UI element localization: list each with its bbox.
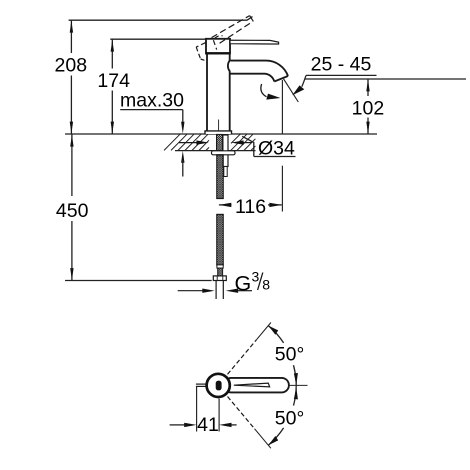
braided supply hose lower [217,214,223,265]
arc end arrow top [268,326,278,335]
svg-text:174: 174 [97,70,130,92]
extension line top (208) [69,17,253,21]
braided supply hose upper [217,155,223,199]
water stream direction line [284,79,299,102]
dimension 25 - 45 [292,53,376,95]
G3/8 pointer arrows [178,289,252,293]
spout stub (plan) [196,384,207,386]
ghost cartridge outline (dashed) [196,36,222,62]
arc mid arrow lower [294,387,298,399]
svg-text:50°: 50° [275,343,305,365]
hex nut G3/8 [213,276,226,281]
threaded shank [217,134,223,151]
dimension 174 [97,39,130,134]
stud lower tail [224,167,227,177]
lever blade wedge [234,383,270,387]
svg-text:50°: 50° [275,408,305,430]
stream swivel curved arrow [261,84,281,100]
washer nut under counter [212,151,236,155]
dimension 208 [55,20,88,134]
spout [230,61,288,82]
svg-text:max.30: max.30 [120,90,184,112]
faucet body [207,54,230,131]
extension line 174 [110,38,206,40]
lever handle [230,40,279,44]
dimension 450 [56,134,89,280]
hole clamp arrow right [231,140,251,144]
svg-text:8: 8 [262,277,270,293]
spout outlet level line [305,78,467,80]
svg-text:25 - 45: 25 - 45 [311,53,372,75]
bottom reference line (hose end level) [65,280,212,282]
svg-text:G: G [235,272,252,296]
G3/8 tube [216,280,223,299]
raised lever (dashed ghost) [212,16,254,44]
mounting stud [223,135,228,167]
hole clamp arrow left [179,140,209,144]
counter hatching [164,134,255,150]
counter top line [65,133,377,135]
svg-text:116: 116 [235,196,266,218]
dimension 102 [352,79,385,133]
swivel ray lower [228,397,271,449]
svg-text:208: 208 [55,54,88,76]
lever centerline [290,384,308,386]
pop-up rod line inside body [218,120,220,132]
svg-text:450: 450 [56,200,89,222]
counter bottom line [175,150,256,152]
lever (plan) [224,378,289,393]
hose connector [218,268,223,276]
hose crimp collar [217,265,223,268]
swivel ray upper [228,323,271,375]
arc end arrow bottom [268,436,278,445]
svg-text:102: 102 [352,98,385,120]
svg-text:41: 41 [197,414,219,436]
cartridge head [206,39,230,54]
label G 3/8 [235,269,271,296]
arc mid arrow upper [294,373,298,385]
dimension max.30 [120,90,185,177]
dimension 41 [170,387,237,436]
base flange [205,131,232,134]
cartridge base ring [206,52,231,54]
cartridge pin (plan) [216,381,222,391]
body circle (plan) [207,374,230,397]
svg-text:3: 3 [252,269,260,285]
angle arc [268,326,296,446]
dimension 116 [219,80,283,218]
dimension Ø34 [242,136,295,159]
